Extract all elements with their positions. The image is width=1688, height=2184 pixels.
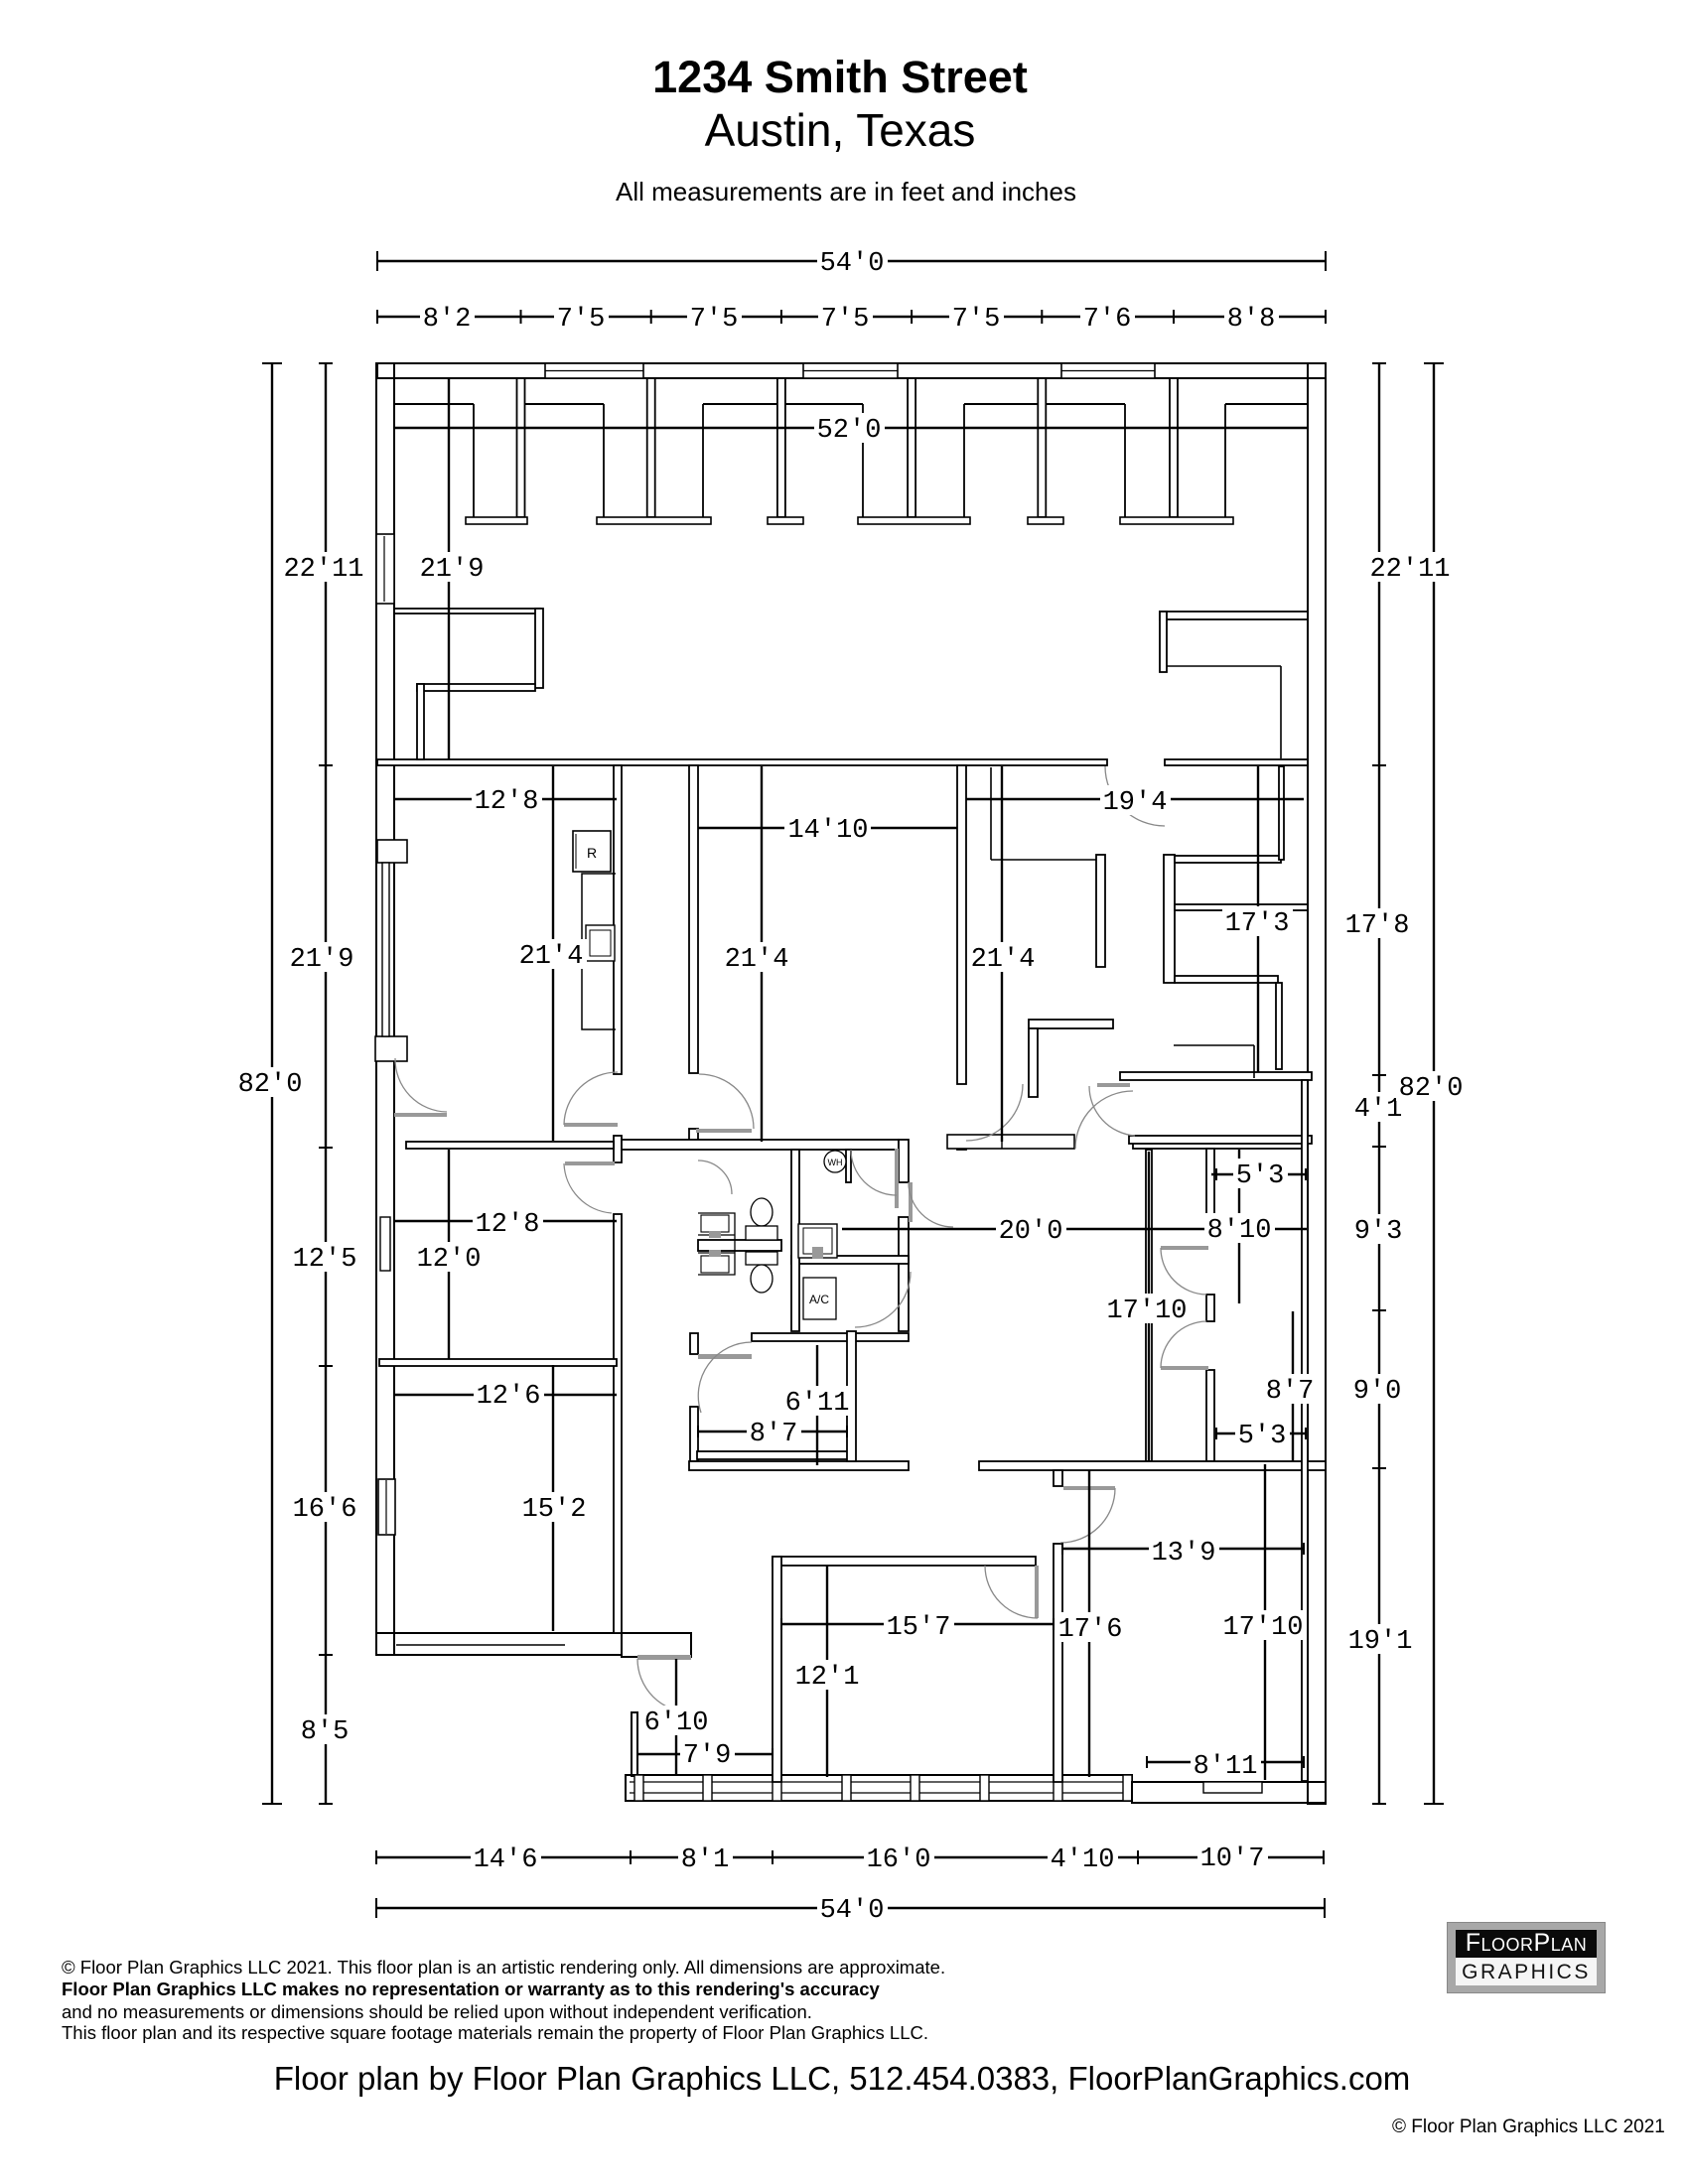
interior wall: main band left segment (377, 759, 1107, 765)
window mullion 8 (1123, 1775, 1132, 1801)
cubicle wall post at 1182 (1170, 378, 1178, 517)
cubicle wall post at 918 (908, 378, 915, 517)
svg-text:17'3: 17'3 (1225, 909, 1290, 939)
dim line 12'8 #1 (394, 798, 617, 800)
sink room west wall lower (899, 1217, 909, 1331)
tick (1372, 1146, 1386, 1148)
subtitle (0, 177, 1688, 207)
door arc room B door (1060, 1488, 1115, 1543)
hall east wall upper (1206, 1149, 1214, 1241)
label 7'5 at 851,319 (818, 302, 873, 332)
svg-text:7'9: 7'9 (683, 1741, 732, 1771)
dim line 14'10 (698, 827, 957, 829)
cubicle panel at 1234 (1224, 404, 1226, 517)
dim line 7'9 (637, 1753, 773, 1755)
NW office wall horizontal 2 (417, 684, 535, 691)
tick (375, 1850, 377, 1864)
refrigerator R (573, 831, 611, 872)
label 16'0 at 905,1871 (864, 1843, 934, 1872)
tick (319, 1147, 333, 1149)
NE closet top wall (1160, 612, 1308, 619)
door leaf entry door (637, 1655, 691, 1660)
door arc kitchen SW (395, 1058, 447, 1112)
svg-text:4'1: 4'1 (1354, 1095, 1403, 1125)
dim line 8'10 v (1238, 1150, 1240, 1303)
window mullion 7 (1054, 1775, 1062, 1801)
label 9'3 at 1388,1238 (1351, 1214, 1406, 1244)
svg-text:17'10: 17'10 (1106, 1297, 1187, 1326)
svg-text:7'5: 7'5 (690, 305, 739, 335)
svg-text:8'2: 8'2 (423, 305, 472, 335)
door arc bath door (698, 1160, 732, 1194)
tick (1061, 1543, 1063, 1555)
svg-text:5'3: 5'3 (1238, 1422, 1287, 1451)
cubicle foot 1128-1242 (1120, 517, 1233, 524)
exterior left wall (376, 363, 394, 1655)
dim line 12'0 (448, 1150, 450, 1359)
label 12'8 at 510,805 (472, 784, 542, 814)
tick (630, 1850, 632, 1864)
hall east wall lower (1206, 1370, 1214, 1461)
window sill line 971-1133 (964, 403, 1125, 405)
AC closet west wall (791, 1150, 799, 1331)
top window 1 (545, 363, 643, 378)
vestibule top wall (1029, 1020, 1113, 1028)
tick (780, 1618, 782, 1630)
kitchen counter (582, 874, 616, 1029)
tick (1372, 1467, 1386, 1469)
label 7'9 at 712,1766 (680, 1738, 735, 1768)
svg-text:21'9: 21'9 (290, 945, 354, 975)
svg-text:20'0: 20'0 (999, 1217, 1063, 1247)
tick (911, 310, 913, 324)
tick (1372, 1074, 1386, 1076)
tick (1215, 1168, 1217, 1180)
label 21'4 at 1010,964 (968, 942, 1039, 972)
NE suite south wall (1120, 1072, 1312, 1080)
title line 2 (0, 103, 1680, 157)
tick (1305, 1428, 1307, 1439)
dim line 8'7 #1 (698, 1431, 847, 1433)
label 12'6 at 512,1404 (474, 1379, 544, 1409)
svg-text:12'8: 12'8 (475, 787, 539, 817)
svg-text:8'5: 8'5 (301, 1717, 350, 1747)
closet line 4 (1253, 1045, 1255, 1078)
label 6'11 at 823,1411 (782, 1386, 853, 1416)
door leaf 6-11 room door (698, 1354, 752, 1359)
svg-text:22'11: 22'11 (1369, 555, 1450, 585)
svg-text:19'4: 19'4 (1103, 788, 1168, 818)
label 21'4 at 555,961 (516, 939, 587, 969)
label 15'7 at 925,1637 (884, 1610, 954, 1640)
exterior right wall (1308, 363, 1326, 1804)
svg-text:WH: WH (828, 1158, 843, 1167)
exterior bottom wall right section (1132, 1782, 1326, 1803)
dim line 12'6 (394, 1394, 617, 1396)
tick (1372, 1309, 1386, 1311)
label 17'10 at 1155,1318 (1104, 1294, 1191, 1323)
window sill line 708-869 (703, 403, 863, 405)
svg-text:13'9: 13'9 (1152, 1539, 1216, 1569)
vestibule south wall (622, 1633, 691, 1657)
dim line 19'4 (966, 798, 1304, 800)
door leaf kitchen SW (394, 1113, 447, 1117)
NW office wall vertical (535, 609, 543, 688)
sink room south wall (791, 1256, 909, 1264)
closet divider wall (1175, 904, 1308, 910)
svg-text:4'10: 4'10 (1051, 1845, 1115, 1875)
room B west wall jamb (1054, 1470, 1062, 1486)
svg-text:8'10: 8'10 (1207, 1216, 1272, 1246)
lower band north wall left (689, 1461, 909, 1470)
label 16'6 at 327,1518 (290, 1492, 360, 1522)
dim line 6'11 (816, 1345, 818, 1465)
svg-text:8'11: 8'11 (1194, 1752, 1258, 1782)
dim line right segments line (1378, 363, 1380, 1804)
dim line 15'2 (552, 1365, 554, 1631)
dim line 6'10 (675, 1659, 677, 1776)
cubicle foot 1035-1071 (1028, 517, 1063, 524)
label 14'10 at 834,834 (784, 813, 871, 843)
window sill line 524-608 (520, 403, 604, 405)
label 4'1 at 1388,1115 (1351, 1092, 1406, 1122)
kitchen east wall upper (614, 765, 622, 1074)
door arc NE suite entry door (1105, 766, 1165, 826)
left wall window 4 mullion (385, 1480, 387, 1534)
tick (376, 310, 378, 324)
label 21'9 at 455,571 (417, 552, 488, 582)
left wall window 4 (378, 1479, 395, 1535)
tick (772, 1850, 774, 1864)
top window 2 (803, 363, 898, 378)
tick (1372, 362, 1386, 364)
door leaf room A door (1035, 1566, 1039, 1618)
cubicle wall post at 655 (647, 378, 655, 517)
window mullion 3 (773, 1775, 781, 1801)
svg-text:19'1: 19'1 (1348, 1627, 1413, 1657)
cubicle foot 773-809 (768, 517, 803, 524)
svg-text:16'6: 16'6 (293, 1495, 357, 1525)
label 8'5 at 327,1742 (298, 1714, 352, 1744)
exterior top wall (377, 363, 1326, 378)
tick (1323, 1850, 1325, 1864)
suite partition line v (990, 767, 992, 860)
interior window (947, 1135, 1074, 1149)
dim line 82'0 right line (1433, 363, 1435, 1804)
suite partition line h (991, 859, 1096, 861)
label 7'5 at 719,319 (687, 302, 742, 332)
svg-text:12'6: 12'6 (477, 1382, 541, 1412)
svg-text:54'0: 54'0 (820, 249, 885, 279)
wall above 12-6 room (379, 1359, 617, 1366)
svg-text:8'1: 8'1 (681, 1845, 730, 1875)
tick (846, 1426, 848, 1437)
dim line 21'4 #3 (1001, 766, 1003, 1142)
label 15'2 at 558,1518 (519, 1492, 590, 1522)
door arc corridor 4-1 door (1089, 1086, 1135, 1136)
left bath counter (698, 1213, 735, 1275)
svg-text:22'11: 22'11 (283, 555, 363, 585)
cubicle panel at 608 (603, 404, 605, 517)
cubicle foot 864-977 (858, 517, 970, 524)
dim line 5'3 #1 (1211, 1173, 1306, 1175)
tick (650, 310, 652, 324)
dim line 12'8 #2 (394, 1220, 617, 1222)
window sill line 397-477 (394, 403, 474, 405)
door leaf bath hall door (895, 1149, 899, 1208)
left wall window 2 (382, 863, 389, 1036)
dim line 8'7 #2 (1292, 1311, 1294, 1461)
door arc center room east door (966, 1084, 1023, 1141)
svg-text:21'9: 21'9 (420, 555, 485, 585)
footer disclaimer line 4 (62, 2022, 928, 2044)
door arc hall east door 2 (1161, 1321, 1206, 1368)
tick (262, 362, 282, 364)
tick (697, 1426, 699, 1437)
label 17'8 at 1387,930 (1342, 908, 1413, 938)
title line 1 (0, 52, 1680, 103)
cubicle panel at 971 (963, 404, 965, 517)
tick (319, 1803, 333, 1805)
dim line 17'6 (1088, 1470, 1090, 1777)
svg-text:14'10: 14'10 (787, 816, 868, 846)
label 82'0 at 272,1090 (235, 1067, 306, 1097)
label 7'5 at 983,319 (949, 302, 1004, 332)
cubicle wall post at 524 (517, 378, 525, 517)
tick (319, 764, 333, 766)
NE suite closet wall (1279, 766, 1284, 860)
6-11 room west wall stub upper (690, 1333, 698, 1354)
tick (375, 1898, 377, 1918)
svg-text:82'0: 82'0 (238, 1070, 303, 1100)
bottom wall step (1203, 1782, 1262, 1793)
bath block north wall (622, 1140, 899, 1150)
tick (262, 1803, 282, 1805)
tick (319, 1365, 333, 1367)
dim line 21'4 #1 (552, 766, 554, 1141)
svg-text:52'0: 52'0 (817, 416, 882, 446)
left wall pier 1 (377, 840, 407, 863)
tick (1146, 1756, 1148, 1768)
footer disclaimer line 2 (62, 1979, 880, 2000)
label 12'0 at 452,1266 (414, 1242, 485, 1272)
hall west wall (1146, 1150, 1152, 1461)
tick (520, 310, 522, 324)
label 21'4 at 762,964 (722, 942, 792, 972)
dim line top segments (377, 316, 1326, 318)
svg-text:12'1: 12'1 (795, 1663, 860, 1693)
tick (319, 362, 333, 364)
label 6'10 at 681,1733 (641, 1706, 712, 1735)
dim line 8'11 (1147, 1761, 1304, 1763)
tick (1137, 1850, 1139, 1864)
label 8'10 at 1248,1237 (1204, 1213, 1275, 1243)
label 17'6 at 1098,1639 (1055, 1612, 1126, 1642)
room A west wall (773, 1557, 781, 1782)
window mullion 6 (980, 1775, 989, 1801)
svg-text:17'10: 17'10 (1222, 1613, 1303, 1643)
label 19'1 at 1390,1651 (1345, 1624, 1416, 1654)
label 17'3 at 1266,928 (1222, 906, 1293, 936)
label 8'8 at 1260,319 (1224, 302, 1279, 332)
svg-text:17'8: 17'8 (1345, 911, 1410, 941)
door leaf room B door (1063, 1486, 1115, 1490)
tick (376, 251, 378, 271)
svg-text:21'4: 21'4 (725, 945, 789, 975)
tick (1303, 1756, 1305, 1768)
6-11 room west wall stub lower (690, 1407, 698, 1461)
exterior bottom window wall (626, 1775, 1132, 1801)
dim line 21'4 #2 (761, 766, 763, 1142)
door arc room A door (985, 1566, 1038, 1618)
footer disclaimer line 1 (62, 1957, 945, 1979)
footer contact line (0, 2060, 1684, 2098)
6-11 room east wall (847, 1331, 856, 1461)
cubicle foot 601-716 (597, 517, 711, 524)
toilet 2 (746, 1252, 777, 1265)
door leaf hall east door 1 (1161, 1246, 1208, 1250)
right inner wall (1302, 1080, 1308, 1781)
svg-text:21'4: 21'4 (971, 945, 1036, 975)
svg-text:7'5: 7'5 (952, 305, 1001, 335)
left wall pier 2 (375, 1036, 407, 1061)
tick (1215, 1428, 1217, 1439)
tick (636, 1748, 638, 1760)
bath block south wall (752, 1333, 909, 1341)
tick (780, 310, 782, 324)
svg-text:8'7: 8'7 (1266, 1377, 1315, 1407)
svg-text:8'8: 8'8 (1227, 305, 1276, 335)
door leaf kitchen east door (564, 1123, 618, 1127)
door arc sink room door (909, 1182, 953, 1227)
label 82'0 at 1441,1094 (1396, 1071, 1467, 1101)
label 8'11 at 1234,1777 (1191, 1749, 1261, 1779)
tick (1325, 310, 1327, 324)
footer copyright right (1392, 2116, 1665, 2138)
svg-text:6'11: 6'11 (785, 1389, 850, 1419)
cubicle foot 469-531 (466, 517, 527, 524)
svg-text:12'5: 12'5 (293, 1245, 357, 1275)
svg-text:7'6: 7'6 (1083, 305, 1132, 335)
svg-text:9'0: 9'0 (1353, 1377, 1402, 1407)
toilet 1 (751, 1198, 773, 1226)
tick (319, 1654, 333, 1656)
tick (1325, 251, 1327, 271)
tick (772, 1748, 774, 1760)
bottom-left wall step line (396, 1644, 565, 1646)
lower band north wall right (979, 1461, 1326, 1470)
svg-text:82'0: 82'0 (1399, 1074, 1464, 1104)
door leaf corridor 4-1 door (1097, 1083, 1130, 1087)
door arc hall north door (1075, 1091, 1133, 1149)
tick (1372, 1803, 1386, 1805)
lobby west wall stub (689, 1129, 698, 1144)
center room east wall stub (957, 1140, 966, 1150)
interior window mullion (1001, 1135, 1003, 1149)
sink room west wall upper (899, 1140, 909, 1182)
svg-text:8'7: 8'7 (750, 1420, 798, 1449)
room B west wall (1054, 1544, 1062, 1782)
bath sink counter (798, 1224, 837, 1258)
label 14'6 at 509,1871 (471, 1843, 541, 1872)
left wall window 1 (376, 534, 394, 604)
svg-text:5'3: 5'3 (1236, 1161, 1285, 1191)
svg-text:14'6: 14'6 (474, 1845, 538, 1875)
tick (1324, 1898, 1326, 1918)
exterior bottom-left wall (376, 1633, 622, 1655)
NE closet inner line 2 (1280, 666, 1282, 758)
left bath sink 1 (701, 1215, 729, 1232)
door leaf hall east door 2 (1161, 1366, 1208, 1370)
wall between kitchen and 12-0 room (406, 1142, 614, 1149)
dim line 5'3 #2 (1216, 1433, 1306, 1434)
label 13'9 at 1192,1562 (1149, 1536, 1219, 1566)
dim line 52'0 (394, 427, 1308, 429)
dim line 17'3 (1257, 766, 1259, 1072)
FloorPlan Graphics logo (1447, 1922, 1606, 1993)
kitchen sink (586, 925, 615, 961)
label 21'9 at 324,964 (287, 942, 357, 972)
label 9'0 at 1387,1399 (1350, 1374, 1405, 1404)
label 10'7 at 1241,1870 (1197, 1842, 1268, 1871)
door leaf sink room door (909, 1182, 913, 1222)
hall north wall right (1133, 1139, 1306, 1149)
porch side wall (632, 1712, 637, 1776)
WH niche wall (846, 1150, 851, 1182)
svg-text:12'8: 12'8 (476, 1210, 540, 1240)
top window 3 (1061, 363, 1155, 378)
svg-text:16'0: 16'0 (867, 1845, 931, 1875)
dim line 13'9 (1062, 1548, 1304, 1550)
cubicle panel at 1133 (1124, 404, 1126, 517)
label 22'11 at 326,571 (280, 552, 366, 582)
label 52'0 at 855,431 (814, 413, 885, 443)
door arc center room door (699, 1074, 754, 1129)
tick (1424, 1803, 1444, 1805)
window wall inner line 2 (630, 1792, 1132, 1794)
left bath sink 2 (701, 1256, 729, 1273)
svg-text:6'10: 6'10 (644, 1708, 709, 1738)
door leaf 12-0 room NE (565, 1161, 615, 1165)
svg-text:7'5: 7'5 (821, 305, 870, 335)
label 12'1 at 833,1687 (792, 1660, 863, 1690)
label 4'10 at 1090,1871 (1048, 1843, 1118, 1872)
svg-text:10'7: 10'7 (1200, 1844, 1265, 1874)
tick (1305, 1168, 1307, 1180)
dim line bottom segments (376, 1856, 1324, 1858)
window sill line 1234-1317 (1225, 403, 1308, 405)
footer disclaimer line 3 (62, 2001, 812, 2023)
tick (1173, 310, 1175, 324)
label 8'7 at 1299,1399 (1263, 1374, 1318, 1404)
svg-text:12'0: 12'0 (417, 1245, 482, 1275)
svg-text:15'2: 15'2 (522, 1495, 587, 1525)
hall east wall jamb (1206, 1295, 1214, 1321)
dim line 15'7 (781, 1623, 1054, 1625)
door arc hall south door (855, 1272, 911, 1327)
window mullion 4 (842, 1775, 851, 1801)
dim line left segments line (325, 363, 327, 1804)
corridor 4-1 south wall (1129, 1136, 1312, 1144)
door arc 6-11 room door (698, 1342, 752, 1413)
svg-text:21'4: 21'4 (519, 942, 584, 972)
cubicle panel at 477 (473, 404, 475, 517)
svg-text:9'3: 9'3 (1354, 1217, 1403, 1247)
NE closet inner line (1167, 665, 1281, 667)
cubicle panel at 869 (862, 404, 864, 517)
dim line 12'1 (826, 1566, 828, 1777)
door arc 12-0 room NE (564, 1163, 612, 1213)
